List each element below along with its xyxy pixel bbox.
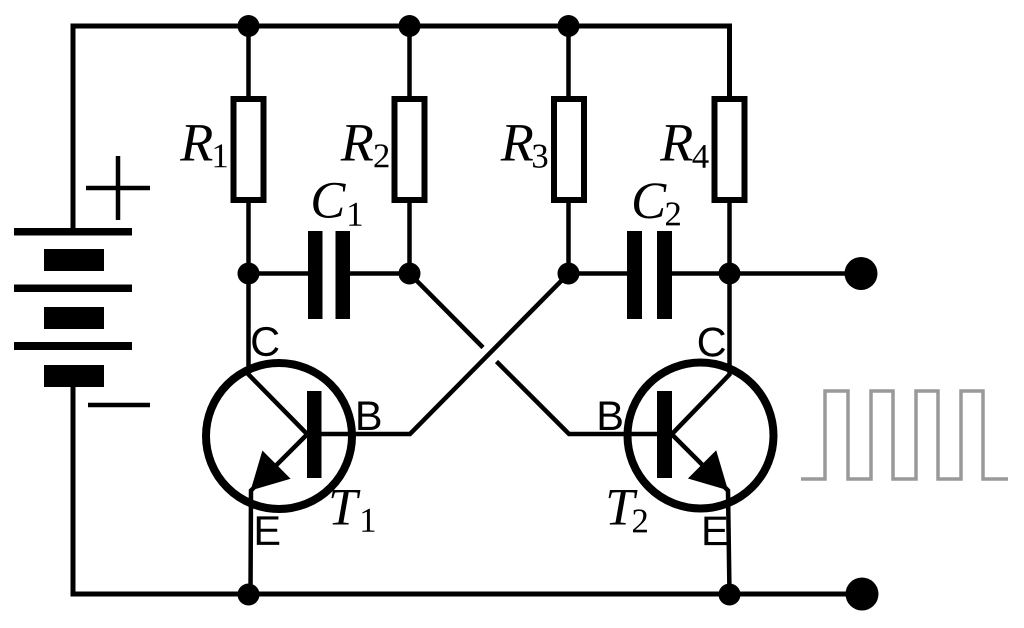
node: top rail junction above R1	[238, 15, 260, 37]
node: top rail junction above R2	[399, 15, 421, 37]
wire: C1 right plate to node B	[350, 271, 410, 276]
wire: R3 top	[566, 26, 571, 96]
wire: R3 bottom to node C	[566, 200, 571, 274]
wire: C2 right plate to node D	[672, 271, 730, 276]
node: bottom rail junction at T2 emitter	[719, 584, 741, 606]
wire: node D to output terminal top	[730, 271, 862, 276]
square wave output symbol	[801, 391, 1008, 479]
output terminal top	[845, 257, 878, 290]
wire: R4 bottom to node D	[727, 200, 732, 274]
resistor R4	[660, 99, 745, 200]
node A: R1/C1/T1-collector junction	[238, 263, 260, 285]
capacitor C2	[627, 183, 680, 319]
resistor R3	[501, 99, 585, 200]
node B: R2/C1/cross-wire junction	[399, 263, 421, 285]
wire: R2 top	[407, 26, 412, 96]
wire: T1 collector from node A	[249, 274, 308, 435]
wire: R1 top	[246, 26, 251, 96]
wire: R2 bottom to node B	[407, 200, 412, 274]
wire: node A to C1 left plate	[249, 271, 309, 276]
node: top rail junction above R3	[558, 15, 580, 37]
resistor R1	[180, 99, 264, 200]
wire: R1 bottom to node A	[246, 200, 251, 274]
capacitor C1	[308, 183, 362, 319]
node: bottom rail junction at T1 emitter	[238, 584, 260, 606]
wire: node C to C2 left plate	[569, 271, 628, 276]
output terminal bottom	[846, 578, 879, 611]
wire: T1 emitter to bottom rail	[251, 434, 308, 594]
node C: R3/C2/cross-wire junction	[558, 263, 580, 285]
battery minus sign	[88, 403, 150, 408]
wire: cross-coupling node B to T2 base with hop gap	[410, 274, 658, 435]
wire: left supply wire + top rail + R4 top drop	[73, 26, 730, 230]
node D: R4/C2/T2-collector/output junction	[719, 263, 741, 285]
battery B1 plates	[14, 228, 132, 387]
resistor R2	[341, 99, 425, 200]
wire: T2 emitter to bottom rail	[672, 434, 730, 594]
transistor T1	[206, 327, 380, 545]
transistor T2	[600, 327, 774, 545]
wire: cross-coupling node C to T1 base	[322, 274, 569, 435]
battery plus sign	[86, 156, 150, 220]
wire: T2 collector from node D	[672, 274, 730, 435]
wire: battery negative to bottom rail	[73, 387, 862, 594]
